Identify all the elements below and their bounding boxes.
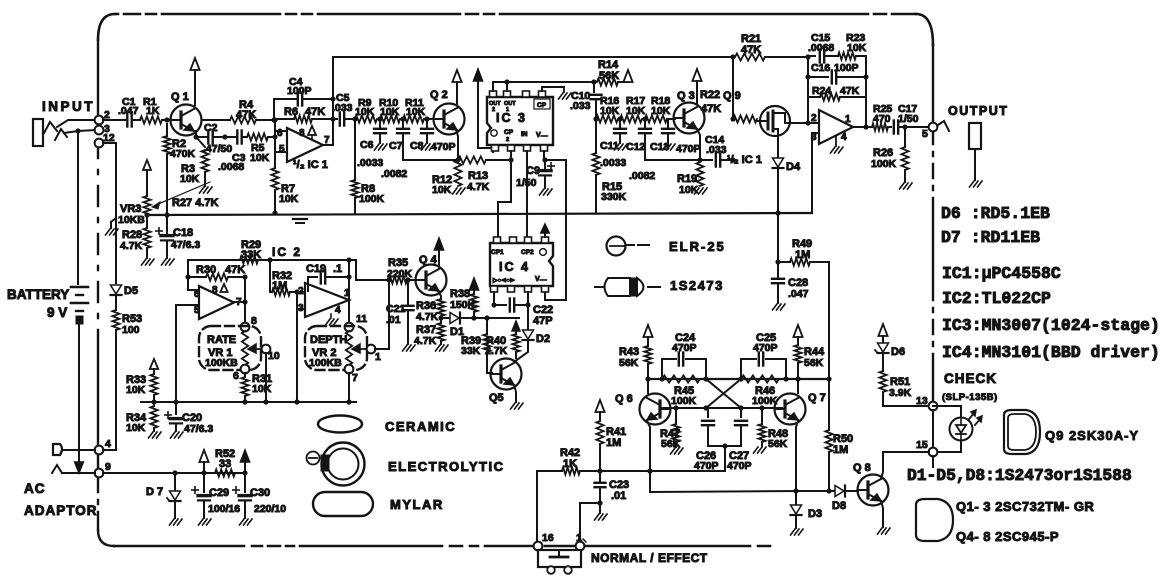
capacitor C2 <box>203 122 232 155</box>
resistor R18 <box>645 95 671 123</box>
node 15 <box>916 439 937 456</box>
svg-text:Q9 2SK30A-Y: Q9 2SK30A-Y <box>1045 428 1139 443</box>
resistor R30 branch <box>185 264 247 281</box>
svg-text:56K: 56K <box>768 438 788 450</box>
capacitor C21 <box>386 280 414 326</box>
pot VR2 wiper <box>352 344 366 353</box>
svg-text:OUTPUT: OUTPUT <box>948 104 1008 118</box>
diode D1 <box>450 313 464 339</box>
resistor R11 <box>403 97 426 123</box>
ground C18 <box>162 259 175 265</box>
wire R42 <box>537 468 603 473</box>
wire Q9 source to D4 <box>777 136 779 157</box>
svg-text:D6: D6 <box>891 346 905 358</box>
svg-text:¹/₂ IC 1: ¹/₂ IC 1 <box>727 154 762 166</box>
svg-text:13: 13 <box>916 395 928 407</box>
svg-text:D8: D8 <box>832 500 846 512</box>
svg-text:1K: 1K <box>146 105 160 117</box>
svg-text:D6 :RD5.1EB: D6 :RD5.1EB <box>941 204 1050 223</box>
wire D2 to Q5 <box>514 341 528 362</box>
svg-text:D 7: D 7 <box>146 486 163 498</box>
wire R22 column <box>730 57 735 122</box>
capacitor C16 branch <box>805 56 868 97</box>
svg-text:5: 5 <box>279 144 285 155</box>
svg-text:10K: 10K <box>355 106 375 118</box>
ground C6 <box>375 133 388 150</box>
resistor R36 <box>416 291 445 323</box>
svg-text:4: 4 <box>105 438 111 450</box>
wire C9 node loop to IC4 <box>545 160 566 300</box>
wire junction to R39/R40 <box>474 315 519 320</box>
diode D6 <box>875 343 905 358</box>
svg-text:100KB: 100KB <box>205 357 238 369</box>
transistor Q1 <box>171 91 202 136</box>
transistor Q8 <box>853 462 889 506</box>
supply arrow R14 <box>623 70 632 82</box>
resistor R16 <box>596 95 620 123</box>
svg-text:V₋₋: V₋₋ <box>535 276 547 283</box>
transistor Q2 <box>430 89 465 135</box>
svg-text:C11: C11 <box>600 140 619 152</box>
op-amp IC1b <box>811 110 853 144</box>
resistor R7 <box>271 152 298 216</box>
switch pin 1 <box>576 532 586 550</box>
wire R4 to IC1a node <box>256 117 278 122</box>
wire C28 ground <box>777 284 779 303</box>
resistor R33 <box>126 374 158 402</box>
svg-text:.0082: .0082 <box>629 170 655 182</box>
capacitor C25 <box>741 332 786 379</box>
note D1-D5 <box>907 466 1132 485</box>
resistor R46 <box>741 375 779 407</box>
wire VR2 wiper to R35 <box>375 280 389 349</box>
svg-text:47K: 47K <box>840 85 860 97</box>
IC4 label <box>499 260 530 274</box>
ground R47 <box>671 448 684 454</box>
wire C21 ground <box>407 311 409 344</box>
wire R9-R10 junction <box>377 116 382 121</box>
ground IC2b pin4 <box>326 314 339 325</box>
svg-text:Q 6: Q 6 <box>615 393 633 405</box>
supply arrow Q1 collector <box>190 58 199 105</box>
svg-text:1: 1 <box>375 351 381 363</box>
svg-text:9 V: 9 V <box>47 305 67 320</box>
svg-text:100K: 100K <box>752 395 778 407</box>
svg-text:D5: D5 <box>124 285 138 297</box>
resistor R14 <box>597 59 628 86</box>
resistor R49 <box>778 238 829 266</box>
wire C14 junction <box>730 157 735 162</box>
wire IC2b output <box>346 257 351 322</box>
resistor R52 <box>215 448 235 477</box>
board outline top-right corner <box>916 14 933 45</box>
node 2 <box>95 109 110 124</box>
svg-text:4: 4 <box>841 132 847 143</box>
wire C20 rail <box>151 399 178 404</box>
svg-text:100KB: 100KB <box>309 357 342 369</box>
wire C1 to R1 <box>132 119 140 121</box>
note IC2 <box>942 289 1051 308</box>
svg-text:10K: 10K <box>126 384 146 396</box>
svg-text:C19: C19 <box>306 263 326 275</box>
capacitor C30 <box>233 473 286 518</box>
transistor Q4 <box>416 254 447 296</box>
wire IC2a pin5 loop <box>176 305 199 402</box>
resistor R44 <box>794 345 825 379</box>
svg-text:47/6.3: 47/6.3 <box>171 239 200 251</box>
note IC1 <box>942 264 1061 283</box>
resistor R45 <box>662 375 700 407</box>
wire Q3 emitter <box>645 129 703 163</box>
svg-text:IC1:μPC4558C: IC1:μPC4558C <box>942 264 1061 283</box>
svg-text:R24: R24 <box>812 85 831 97</box>
supply arrow R52 <box>199 450 208 473</box>
svg-text:10K: 10K <box>432 184 452 196</box>
wire C12 down <box>644 133 646 160</box>
node 12 <box>95 132 115 147</box>
capacitor C27 <box>727 408 752 472</box>
svg-text:2.7K: 2.7K <box>485 345 508 357</box>
IC4 internal diagram <box>492 276 547 284</box>
svg-text:CP1: CP1 <box>491 249 504 256</box>
svg-text:IC4:MN3101(BBD driver): IC4:MN3101(BBD driver) <box>942 343 1160 362</box>
ground C29 <box>199 519 212 525</box>
wire R21 to C15 block <box>765 54 811 59</box>
wire R10-R11 junction <box>400 116 405 121</box>
wire C15 block verticals <box>805 97 868 130</box>
op-amp IC2a <box>194 285 242 319</box>
switch body <box>538 550 581 574</box>
resistor R22 <box>700 89 757 123</box>
svg-text:2: 2 <box>811 113 817 124</box>
svg-text:C9: C9 <box>526 165 540 177</box>
resistor R41 <box>596 421 626 481</box>
svg-text:56K: 56K <box>661 438 681 450</box>
node 11 DEPTH top <box>345 313 368 331</box>
wire R13 to IC3 IN <box>486 157 514 162</box>
wire R5 to IC1a pins <box>268 120 287 152</box>
svg-text:.033: .033 <box>332 102 353 114</box>
svg-text:NORMAL / EFFECT: NORMAL / EFFECT <box>591 551 708 565</box>
svg-text:47K: 47K <box>741 44 761 56</box>
svg-text:470P: 470P <box>727 460 752 472</box>
svg-text:56K: 56K <box>599 70 619 82</box>
wire IC3 pin1 top <box>492 82 494 91</box>
svg-text:220/10: 220/10 <box>254 503 286 515</box>
wire IC3 pin to IC4 CP1 <box>498 151 511 237</box>
board outline bottom edge (chain line) <box>114 545 770 548</box>
resistor R31 <box>241 373 272 405</box>
svg-text:C18: C18 <box>173 227 193 239</box>
resistor R10 <box>379 97 400 123</box>
ground C21 <box>403 345 416 351</box>
wire IC3 top rail to R14 <box>493 79 597 84</box>
svg-text:1S2473: 1S2473 <box>670 278 724 293</box>
resistor R3 <box>180 137 209 186</box>
diode D4 <box>773 158 801 173</box>
wire output plug ground <box>974 149 976 180</box>
svg-text:Q 8: Q 8 <box>853 462 871 474</box>
wire Q1 collector R4 line <box>202 119 230 121</box>
svg-text:1: 1 <box>845 114 851 125</box>
svg-text:10K: 10K <box>847 42 867 54</box>
svg-text:C2: C2 <box>204 122 218 134</box>
svg-text:10: 10 <box>268 350 280 362</box>
wire VR1 wiper down <box>263 353 268 405</box>
svg-text:100: 100 <box>122 324 140 336</box>
svg-text:IC3:MN3007(1024-stage): IC3:MN3007(1024-stage) <box>942 316 1160 335</box>
svg-text:ELECTROLYTIC: ELECTROLYTIC <box>388 459 504 474</box>
legend ceramic symbol <box>318 416 362 433</box>
wire R2 to rail <box>166 154 168 214</box>
board outline top edge (chain line) <box>115 13 916 16</box>
label CERAMIC <box>385 419 456 434</box>
svg-text:.047: .047 <box>788 288 809 300</box>
svg-text:CP2: CP2 <box>521 249 534 256</box>
svg-text:R22: R22 <box>700 89 720 101</box>
svg-text:IN: IN <box>521 131 528 138</box>
capacitor C10 <box>570 82 602 119</box>
svg-text:1M: 1M <box>606 437 621 449</box>
svg-text:¹/₂ IC 1: ¹/₂ IC 1 <box>293 159 328 171</box>
svg-text:C12: C12 <box>626 141 645 153</box>
resistor R25 <box>872 113 919 131</box>
node 13 <box>916 395 937 448</box>
resistor R35 <box>387 257 413 284</box>
ground R26 <box>900 183 913 189</box>
wire C7 to emitter line <box>402 133 404 160</box>
svg-text:CERAMIC: CERAMIC <box>385 419 456 434</box>
IC3 label <box>496 111 527 125</box>
svg-text:330K: 330K <box>601 191 627 203</box>
capacitor C28 <box>772 262 809 300</box>
pot VR3 <box>118 160 151 226</box>
wire node9 left <box>52 465 95 473</box>
fet Q9 <box>723 90 819 136</box>
resistor R6 <box>274 106 333 123</box>
svg-text:C30: C30 <box>250 487 270 499</box>
svg-text:INPUT: INPUT <box>42 99 95 114</box>
svg-text:10KB: 10KB <box>118 214 145 226</box>
label R27 <box>172 197 219 209</box>
svg-text:8: 8 <box>212 285 218 296</box>
transistor Q7 <box>775 392 826 425</box>
svg-text:6: 6 <box>277 128 283 139</box>
ground output plug <box>970 181 983 187</box>
wire below node15 <box>932 456 934 467</box>
wire R39 to Q5 base <box>487 352 492 373</box>
label SLP-135B <box>942 392 998 403</box>
svg-text:Q5: Q5 <box>489 392 504 404</box>
wire node7 down <box>346 373 351 405</box>
supply arrow R43 <box>643 325 652 346</box>
wire R11 to Q2 <box>424 116 434 121</box>
wire top rail y57 <box>333 54 736 59</box>
svg-text:47/6.3: 47/6.3 <box>184 423 213 435</box>
ac plug <box>53 444 62 455</box>
capacitor C29 <box>192 473 240 518</box>
svg-text:10K: 10K <box>626 105 646 117</box>
capacitor C18 <box>156 215 201 258</box>
capacitor C4 rail <box>271 76 333 123</box>
wire led loop <box>933 406 961 452</box>
svg-text:470P: 470P <box>753 342 778 354</box>
diode D8 <box>832 486 846 513</box>
svg-text:470P: 470P <box>676 143 701 155</box>
capacitor C24 <box>662 332 706 379</box>
svg-text:1: 1 <box>576 532 582 544</box>
supply arrow IC2a pin8 <box>220 284 227 292</box>
svg-text:.0033: .0033 <box>600 157 626 169</box>
label ELR-25 <box>669 239 726 254</box>
resistor R47 <box>660 408 681 450</box>
svg-text:IC 3: IC 3 <box>496 111 527 125</box>
note IC3 <box>942 316 1160 335</box>
supply arrow R41 <box>595 400 604 421</box>
label BATTERY <box>7 287 69 302</box>
IC4 pin texts <box>491 249 546 256</box>
capacitor C11 <box>600 119 626 169</box>
svg-text:5: 5 <box>194 305 200 316</box>
diode D7 <box>146 473 181 501</box>
label ADAPTOR <box>24 503 98 518</box>
node 8 RATE top <box>241 315 257 331</box>
resistor R8 <box>351 119 384 213</box>
capacitor C9 <box>516 151 554 189</box>
wire IC2 top rail <box>188 260 356 290</box>
wire R32 line <box>244 301 246 303</box>
svg-text:10K: 10K <box>279 193 299 205</box>
svg-text:10K: 10K <box>180 173 200 185</box>
svg-text:10K: 10K <box>651 105 671 117</box>
ground Q5 <box>511 403 524 409</box>
svg-text:Q4- 8 2SC945-P: Q4- 8 2SC945-P <box>956 529 1059 544</box>
svg-text:47P: 47P <box>533 315 553 327</box>
svg-text:470K: 470K <box>170 148 196 160</box>
package Q9 outline <box>1004 410 1040 454</box>
resistor R5 <box>242 133 270 164</box>
input jack ring contact <box>55 129 67 140</box>
svg-text:16: 16 <box>542 532 554 544</box>
svg-text:IC 4: IC 4 <box>499 260 530 274</box>
svg-text:AC: AC <box>24 481 46 496</box>
resistor R32 <box>270 270 305 296</box>
svg-text:4: 4 <box>335 305 341 316</box>
legend ELR-25 symbol <box>607 237 650 256</box>
resistor R48 <box>758 408 788 450</box>
wire node2 to C1 <box>103 119 125 121</box>
svg-text:33: 33 <box>219 458 231 470</box>
input jack sleeve <box>33 119 43 146</box>
svg-text:C13: C13 <box>650 141 669 153</box>
capacitor C5 <box>332 92 355 126</box>
node 6 RATE bottom <box>233 365 249 382</box>
legend 1S2473 symbol <box>595 278 660 296</box>
ground D7 <box>170 502 183 525</box>
svg-text:.0068: .0068 <box>808 42 834 54</box>
op-amp IC1a <box>277 128 330 162</box>
input jack tip contact <box>44 122 57 133</box>
node 9 <box>95 461 111 477</box>
wire osc base rail <box>661 405 782 410</box>
IC3 bottom pin stubs <box>492 145 548 151</box>
svg-text:11: 11 <box>356 313 367 325</box>
svg-text:CP: CP <box>504 129 514 136</box>
wire IC4 pin bottom cp2 <box>525 292 530 308</box>
supply arrow Q3 collector <box>692 69 701 103</box>
svg-text:.0068: .0068 <box>218 161 244 173</box>
ground input sleeve <box>106 218 119 235</box>
board outline top-left corner <box>98 14 115 40</box>
svg-text:1K: 1K <box>563 458 577 470</box>
IC3 body <box>487 97 553 145</box>
ground mid rail <box>293 219 307 223</box>
svg-text:56K: 56K <box>619 357 639 369</box>
wire R29 to R32 link <box>267 257 272 292</box>
resistor R34 <box>126 402 158 434</box>
diode D3 <box>791 491 823 520</box>
resistor R19 <box>677 162 704 196</box>
wire rail dots <box>645 376 831 381</box>
svg-text:.1: .1 <box>333 263 342 275</box>
svg-text:R6: R6 <box>284 106 298 118</box>
svg-text:OUT: OUT <box>489 101 501 107</box>
ground C13 <box>663 133 676 150</box>
ground R3 <box>200 187 213 193</box>
svg-text:.0033: .0033 <box>357 157 383 169</box>
resistor R9 <box>355 97 377 123</box>
wire Q2 emitter line <box>403 130 461 163</box>
IC4 body <box>490 243 553 286</box>
legend mylar symbol <box>313 492 373 516</box>
resistor R21 <box>735 33 765 61</box>
label 9V <box>47 305 67 320</box>
svg-text:8: 8 <box>299 128 305 139</box>
svg-text:2: 2 <box>506 137 509 143</box>
pot VR1 wiper <box>248 344 264 353</box>
cross coupling wires <box>706 379 741 408</box>
supply arrow R44 <box>793 325 802 345</box>
wire Q8 emitter <box>881 501 883 527</box>
svg-text:Q 7: Q 7 <box>808 392 826 404</box>
note IC4 <box>942 343 1160 362</box>
svg-text:33K: 33K <box>241 249 261 261</box>
supply arrow Q2 collector <box>452 70 461 104</box>
svg-text:.047: .047 <box>118 105 139 117</box>
svg-text:9: 9 <box>105 461 111 473</box>
wire IC2a output <box>234 277 248 322</box>
svg-text:1/50: 1/50 <box>898 113 919 125</box>
svg-text:2: 2 <box>492 107 495 113</box>
svg-text:1M: 1M <box>272 280 287 292</box>
svg-text:C7: C7 <box>389 140 403 152</box>
svg-text:3.9K: 3.9K <box>889 387 912 399</box>
wire rail A right leg <box>356 260 392 283</box>
resistor R17 <box>620 95 646 123</box>
svg-text:D1-D5,D8:1S2473or1S1588: D1-D5,D8:1S2473or1S1588 <box>907 466 1132 485</box>
ground R48 <box>754 447 767 453</box>
svg-text:5: 5 <box>922 128 928 140</box>
svg-text:ADAPTOR: ADAPTOR <box>24 503 98 518</box>
svg-text:100P: 100P <box>834 62 859 74</box>
wire D4 col to C28 <box>775 213 780 265</box>
capacitor C13 <box>650 119 701 155</box>
wire C10 junction <box>593 116 598 121</box>
svg-text:.033: .033 <box>570 100 591 112</box>
resistor R38 <box>450 288 478 318</box>
resistor R39 <box>461 318 491 357</box>
svg-text:47K: 47K <box>305 106 325 118</box>
